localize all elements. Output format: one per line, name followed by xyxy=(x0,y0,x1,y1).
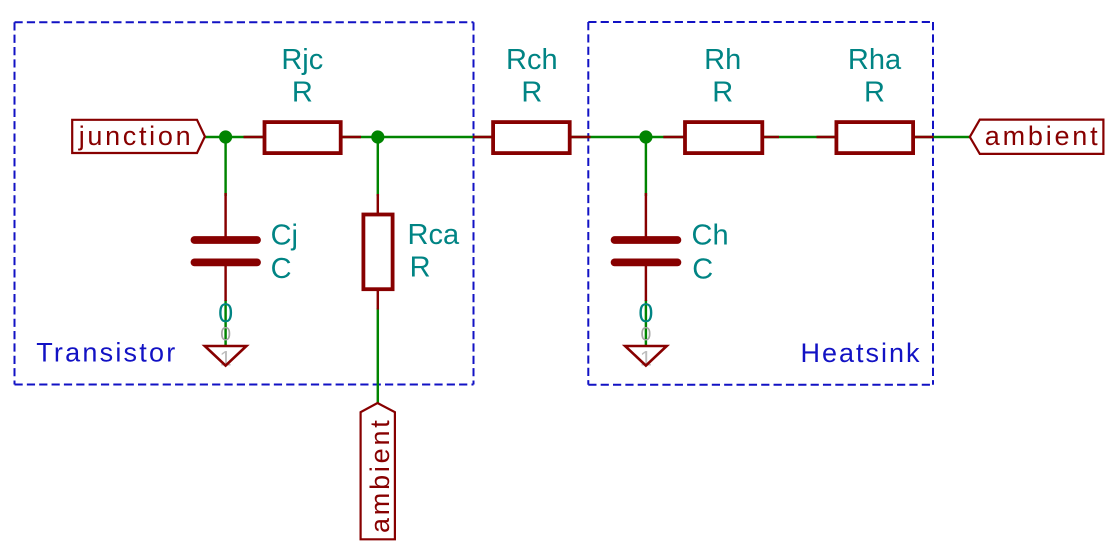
pin Rca bottom xyxy=(377,290,379,310)
capacitor Cj plates xyxy=(195,236,258,244)
pin Cj top xyxy=(224,193,226,237)
global label junction shape xyxy=(72,120,205,153)
pin Rca top xyxy=(377,194,379,215)
wire node A down to Cj xyxy=(224,137,226,196)
svg-text:R: R xyxy=(292,76,313,108)
svg-text:C: C xyxy=(692,254,713,286)
junction dot node C xyxy=(639,130,652,143)
svg-text:C: C xyxy=(271,253,292,285)
pin Cj bottom xyxy=(224,266,226,302)
pin R_h left xyxy=(663,136,684,138)
svg-text:R: R xyxy=(712,76,733,108)
pin R_jc right xyxy=(342,136,362,138)
svg-text:Transistor: Transistor xyxy=(36,338,175,368)
Heatsink sheet box xyxy=(588,22,933,385)
global label ambient bottom shape xyxy=(361,403,395,539)
svg-text:R: R xyxy=(410,252,431,284)
ground symbol C triangle xyxy=(625,346,667,366)
pin R_ch right xyxy=(571,136,591,138)
svg-text:ambient: ambient xyxy=(985,121,1098,151)
wire node B down to Rca xyxy=(377,137,379,196)
global label ambient right shape xyxy=(970,120,1104,154)
svg-text:Ch: Ch xyxy=(692,219,729,251)
pin R_h right xyxy=(763,136,779,138)
resistor Rch body xyxy=(493,122,570,153)
pin R_ch left xyxy=(473,136,493,138)
Transistor sheet box xyxy=(15,22,474,384)
wire node C down to Ch xyxy=(645,137,647,196)
svg-text:Rjc: Rjc xyxy=(281,44,323,76)
svg-text:Cj: Cj xyxy=(271,220,298,252)
capacitor Ch plates xyxy=(615,236,678,244)
svg-text:R: R xyxy=(864,76,885,108)
wire Cj to ground A xyxy=(224,300,226,346)
wire Rca to ambient label xyxy=(377,308,379,403)
svg-text:Rha: Rha xyxy=(848,44,902,76)
pin R_jc left xyxy=(244,136,265,138)
svg-text:R: R xyxy=(521,76,542,108)
svg-text:0: 0 xyxy=(218,298,233,328)
pin R_ha left xyxy=(817,136,837,138)
resistor Rh body xyxy=(685,122,762,153)
svg-text:Rh: Rh xyxy=(704,44,741,76)
pin Ch bottom xyxy=(645,266,647,302)
svg-text:Rca: Rca xyxy=(408,219,460,251)
pin R_ha right xyxy=(914,136,934,138)
resistor Rca body xyxy=(363,215,392,290)
svg-text:ambient: ambient xyxy=(365,420,395,533)
pin Ch top xyxy=(645,193,647,237)
resistor Rha body xyxy=(836,122,913,153)
ground symbol A triangle xyxy=(205,346,247,366)
wire Ch to ground C xyxy=(645,300,647,346)
junction dot node A xyxy=(219,130,232,143)
junction dot node B xyxy=(371,130,384,143)
svg-text:Heatsink: Heatsink xyxy=(801,338,921,368)
wire main horizontal xyxy=(205,136,970,138)
svg-text:0: 0 xyxy=(638,298,653,328)
svg-text:Rch: Rch xyxy=(506,44,558,76)
resistor Rjc body xyxy=(265,122,341,153)
